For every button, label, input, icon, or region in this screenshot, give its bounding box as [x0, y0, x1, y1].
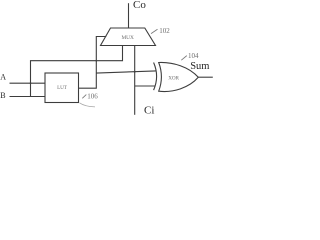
mux U102: [101, 28, 156, 46]
wire Ci riser to MUX data input: [134, 46, 136, 115]
svg-text:Sum: Sum: [190, 61, 209, 72]
svg-text:102: 102: [159, 27, 170, 35]
junction B riser wire x LUT output riser: [95, 60, 97, 62]
label 106 leader: [82, 95, 86, 99]
wire input A: [10, 82, 46, 84]
wire LUT output branch to XOR upper input: [96, 71, 155, 73]
svg-text:Co: Co: [133, 0, 146, 11]
junction W1 x Ci riser: [134, 71, 136, 73]
svg-text:A: A: [0, 73, 6, 82]
label 104 leader: [181, 56, 187, 61]
svg-text:XOR: XOR: [168, 76, 179, 82]
wire Sum output: [198, 76, 213, 78]
svg-text:B: B: [0, 91, 5, 100]
junction B riser x A wire: [30, 82, 32, 84]
wire LUT output to MUX select: [79, 37, 107, 89]
svg-text:LUT: LUT: [57, 85, 68, 91]
wire B to MUX data input: [31, 46, 123, 97]
svg-text:104: 104: [188, 52, 199, 60]
svg-text:106: 106: [87, 92, 98, 100]
wire Ci branch to XOR lower input: [135, 85, 156, 87]
leader curve under 106: [80, 103, 96, 107]
xor U104: [154, 62, 199, 91]
label 102 leader: [151, 29, 158, 33]
svg-text:MUX: MUX: [121, 35, 133, 41]
wire input B: [10, 96, 46, 98]
wire Co output lead: [128, 3, 130, 28]
lut U106: [45, 73, 79, 103]
svg-text:Ci: Ci: [144, 104, 154, 116]
